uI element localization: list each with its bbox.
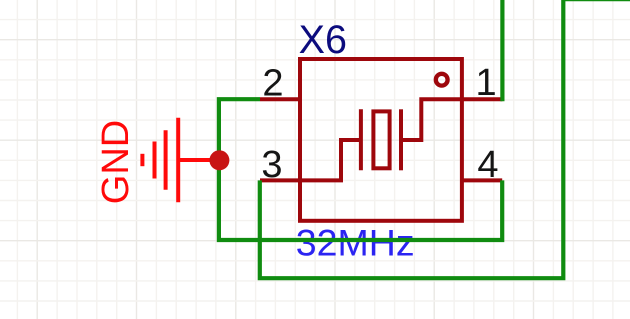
GND bar 2	[164, 130, 168, 190]
svg-text:2: 2	[262, 62, 283, 104]
pin 1 indicator circle	[436, 74, 448, 86]
svg-text:X6: X6	[299, 18, 347, 62]
pin 4 stub	[462, 178, 502, 182]
GND bar 4	[140, 154, 144, 166]
wire net pin3 loop to top right	[260, 0, 630, 278]
crystal X6 body rectangle	[300, 59, 462, 221]
svg-text:32MHz: 32MHz	[296, 222, 415, 264]
right crystal lead and pin 1 stub	[401, 99, 502, 140]
svg-text:3: 3	[261, 144, 282, 186]
svg-text:1: 1	[475, 62, 496, 104]
pin 3 stub and left crystal lead	[260, 140, 361, 180]
GND horizontal lead	[178, 158, 219, 162]
crystal right plate	[399, 109, 403, 170]
junction dot	[209, 150, 229, 170]
crystal left plate	[359, 109, 363, 170]
svg-text:GND: GND	[95, 120, 137, 204]
crystal body	[373, 111, 389, 168]
svg-text:4: 4	[477, 144, 498, 186]
GND bar 3	[153, 142, 157, 179]
pin 2 stub	[260, 97, 301, 101]
wire to pin 1 from top	[500, 0, 504, 101]
wire net GND: pin2 to pin4 loop	[219, 99, 502, 240]
GND bar 1	[176, 118, 180, 203]
